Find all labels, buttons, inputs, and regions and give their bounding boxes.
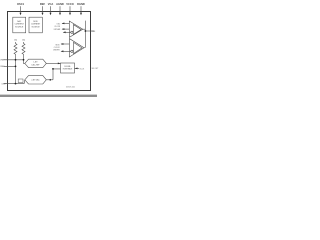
svg-text:VCCO: VCCO <box>66 2 74 6</box>
svg-text:SOURCE: SOURCE <box>32 26 41 28</box>
svg-text:MOD: MOD <box>33 21 38 23</box>
svg-text:REF: REF <box>40 2 46 6</box>
svg-text:OSC1: OSC1 <box>17 2 25 6</box>
svg-text:COMP: COMP <box>1 83 6 85</box>
svg-text:DAC: DAC <box>17 20 22 23</box>
svg-text:SD OUT: SD OUT <box>92 68 100 70</box>
svg-text:DGND: DGND <box>77 2 85 6</box>
svg-text:DAC+REF: DAC+REF <box>32 63 40 66</box>
svg-text:CURRENT: CURRENT <box>15 24 25 26</box>
svg-text:DRIVER: DRIVER <box>53 50 60 52</box>
svg-text:INTERFACE: INTERFACE <box>63 67 73 70</box>
svg-text:VREF: VREF <box>0 60 4 62</box>
svg-text:AGND: AGND <box>56 2 64 6</box>
svg-text:VCA: VCA <box>48 2 54 6</box>
svg-text:RSET: RSET <box>0 66 4 68</box>
svg-text:SOURCE: SOURCE <box>15 26 24 28</box>
svg-text:2-BIT DAC: 2-BIT DAC <box>31 79 40 82</box>
svg-text:DIGITAL: DIGITAL <box>64 65 70 68</box>
svg-text:DRIVER: DRIVER <box>54 29 61 31</box>
svg-text:CURRENT: CURRENT <box>31 24 41 26</box>
svg-text:SCLK: SCLK <box>80 68 85 70</box>
svg-text:05329-001: 05329-001 <box>66 87 75 89</box>
